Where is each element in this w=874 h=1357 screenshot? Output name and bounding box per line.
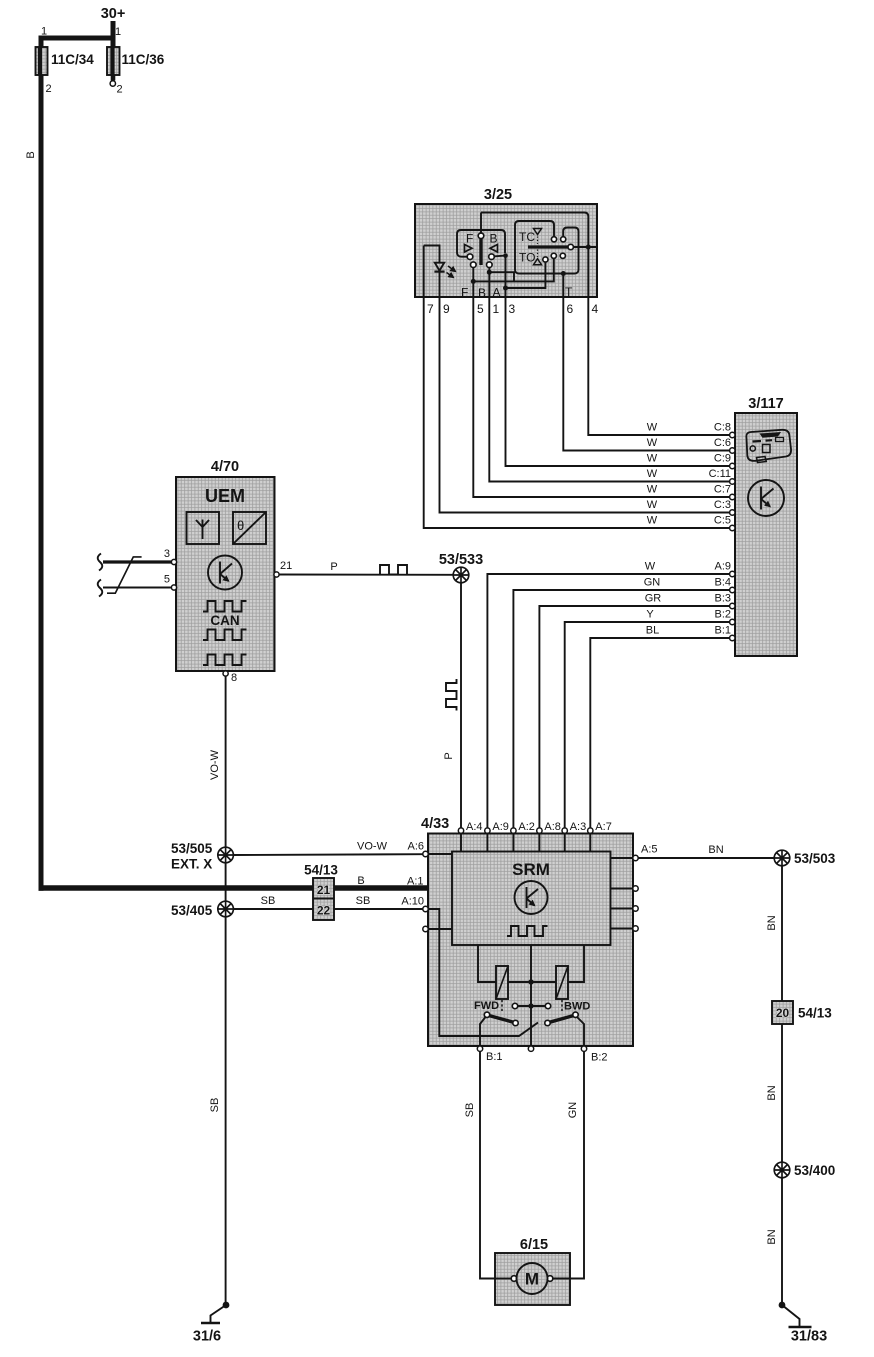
svg-text:B: B (478, 286, 486, 300)
svg-text:3/117: 3/117 (748, 396, 784, 412)
svg-text:31/83: 31/83 (791, 1329, 827, 1345)
relay link center (508, 981, 556, 983)
switch actuator bar (479, 237, 482, 265)
wire Y from 3/117 B:2 to SRM A:3 (565, 622, 730, 828)
svg-text:A:8: A:8 (544, 821, 561, 833)
svg-text:A:6: A:6 (407, 841, 424, 853)
svg-text:21: 21 (317, 883, 331, 897)
relay coil FWD (496, 966, 508, 999)
wire UEM pin 8 down (225, 676, 227, 847)
dashed actuator links (501, 1000, 503, 1013)
SRM left pin circles (423, 851, 428, 856)
wire GN from SRM B:2 to motor (553, 1051, 584, 1278)
svg-text:7: 7 (427, 302, 434, 316)
svg-text:B: B (357, 875, 364, 887)
junction contact row (528, 1003, 533, 1008)
svg-text:53/400: 53/400 (794, 1163, 835, 1178)
SRM top pin leads inside (461, 834, 590, 852)
svg-text:30+: 30+ (101, 6, 126, 22)
svg-text:GN: GN (567, 1102, 579, 1119)
wire VO-W 53/505 to SRM A:6 (233, 853, 422, 856)
break squiggle pin3 (98, 554, 103, 571)
UEM electronic unit symbol (208, 556, 242, 590)
wire BN from SRM A:5 to 53/503 (638, 857, 774, 859)
svg-text:5: 5 (164, 574, 170, 586)
svg-text:A:2: A:2 (518, 821, 535, 833)
TC-TO actuator bar (528, 245, 568, 248)
svg-text:P: P (443, 752, 455, 759)
svg-text:B: B (25, 151, 37, 158)
svg-text:P: P (330, 561, 337, 573)
wire pin9 to 3/117 C:3 (440, 272, 730, 513)
svg-text:A:9: A:9 (492, 821, 509, 833)
SRM right leads (611, 858, 634, 929)
wire SB 53/405 to SRM A:10 (233, 908, 422, 910)
UEM pin 21 circle (274, 572, 279, 577)
LED indicator in 3/25 (435, 263, 444, 271)
wire top link common to pin4 (481, 213, 588, 248)
wire BN 53/400 down to ground (781, 1178, 783, 1304)
SRM left lead A:6 (429, 853, 452, 855)
SRM inner module box (452, 852, 611, 946)
svg-text:B:2: B:2 (714, 609, 731, 621)
wire B battery feed down left side (39, 75, 44, 891)
ground junction 31/83 (779, 1302, 786, 1309)
wire pin6 to 3/117 C:6 (563, 274, 729, 451)
svg-text:A:7: A:7 (595, 821, 612, 833)
wire 30+ feed vertical (111, 21, 116, 50)
wire P vertical from 53/533 to SRM A:4 (460, 583, 462, 828)
svg-text:T: T (565, 285, 573, 299)
contact circle F (467, 254, 473, 260)
svg-text:F: F (466, 232, 473, 246)
ground junction 31/6 (223, 1302, 230, 1309)
svg-text:BN: BN (708, 844, 723, 856)
wire common up (480, 213, 482, 234)
wire pin7 internal jog (424, 246, 440, 263)
wire 53/505 down to 53/405 (225, 863, 227, 901)
TO dotted (537, 250, 539, 258)
svg-text:1: 1 (41, 26, 47, 38)
TC triangle (534, 229, 542, 235)
svg-text:W: W (645, 561, 656, 573)
svg-text:W: W (647, 499, 658, 511)
fuse 11C/36 (107, 47, 120, 75)
wire node A to TO contact (506, 262, 546, 288)
svg-text:F: F (461, 286, 468, 300)
wire GN from 3/117 B:4 to SRM A:2 (513, 590, 729, 828)
TO triangle (534, 259, 542, 265)
svg-text:21: 21 (280, 560, 292, 572)
svg-text:TO: TO (519, 251, 535, 265)
relay feed right (568, 945, 584, 982)
motor terminal right (547, 1276, 553, 1282)
svg-text:B:1: B:1 (486, 1051, 503, 1063)
svg-text:A:4: A:4 (466, 821, 483, 833)
SRM right pin circles (633, 855, 638, 860)
wire pin1 to 3/117 C:11 (489, 272, 729, 481)
svg-text:A:3: A:3 (570, 821, 587, 833)
LED arrows (448, 266, 456, 272)
arm end circles (484, 1012, 489, 1017)
svg-text:θ: θ (237, 518, 244, 533)
svg-text:VO-W: VO-W (357, 841, 388, 853)
junction B row (487, 270, 492, 275)
wire BN down right side (781, 866, 783, 1162)
UEM pin 3 wire thick (103, 560, 174, 563)
svg-text:BN: BN (766, 1085, 778, 1100)
svg-text:W: W (647, 453, 658, 465)
wire pin4 to 3/117 C:8 (588, 247, 729, 435)
svg-text:SB: SB (464, 1103, 476, 1118)
ground symbol 31/6 (211, 1305, 227, 1323)
svg-text:2: 2 (46, 83, 52, 95)
center wire from module (530, 945, 532, 1046)
svg-text:A:1: A:1 (407, 876, 424, 888)
wire W from 3/117 A:9 to SRM A:9 (487, 574, 729, 828)
SRM square wave (507, 926, 548, 936)
svg-text:11C/34: 11C/34 (51, 52, 94, 67)
svg-text:BL: BL (646, 625, 659, 637)
square wave symbol on P wire (380, 565, 407, 575)
SRM bottom pin circles (477, 1046, 482, 1051)
wire B lower to row (488, 268, 490, 273)
TC dotted (537, 237, 539, 245)
3/117 pin circles C group (730, 432, 735, 437)
svg-text:53/533: 53/533 (439, 552, 483, 568)
svg-text:6: 6 (567, 302, 574, 316)
wire pin7 to 3/117 C:5 (424, 246, 730, 529)
svg-text:W: W (647, 437, 658, 449)
svg-text:C:8: C:8 (714, 422, 731, 434)
svg-text:B:2: B:2 (591, 1052, 608, 1064)
svg-text:C:5: C:5 (714, 515, 731, 527)
svg-text:2: 2 (117, 84, 123, 96)
3/117 electronic unit symbol (748, 480, 784, 516)
TO contact circles (543, 257, 548, 262)
actuator end circle (568, 244, 573, 249)
UEM pin 5 wire (103, 587, 174, 589)
wire pin3 to 3/117 C:9 (506, 256, 730, 466)
switch TC-TO housing right path (563, 228, 578, 274)
wire BL from 3/117 B:1 to SRM A:7 (590, 638, 729, 828)
junction center relay (528, 979, 533, 984)
motor circle M (517, 1263, 548, 1294)
wire SB from SRM B:1 to motor (480, 1051, 511, 1278)
svg-text:1: 1 (493, 302, 500, 316)
contact circle F lower (471, 262, 477, 268)
wire F lower to row (472, 268, 474, 282)
svg-text:BWD: BWD (564, 1001, 590, 1013)
svg-text:9: 9 (443, 302, 450, 316)
UEM pin 8 circle (223, 671, 228, 676)
junction pin6 (561, 271, 566, 276)
relay coil BWD (556, 966, 568, 999)
wire row F to TO contact (473, 259, 554, 282)
svg-text:1: 1 (115, 26, 121, 38)
svg-text:BN: BN (766, 1229, 778, 1244)
UEM square wave 3 (203, 655, 247, 666)
svg-text:C:3: C:3 (714, 499, 731, 511)
svg-text:C:7: C:7 (714, 484, 731, 496)
svg-text:FWD: FWD (474, 1000, 499, 1012)
svg-text:31/6: 31/6 (193, 1329, 221, 1345)
switch TC-TO housing left path (515, 221, 563, 274)
junction F row (471, 279, 476, 284)
junction pin4 (586, 245, 591, 250)
svg-text:3: 3 (164, 548, 170, 560)
theta diagonal (234, 513, 266, 544)
svg-text:GN: GN (644, 577, 661, 589)
svg-text:W: W (647, 515, 658, 527)
svg-text:C:6: C:6 (714, 437, 731, 449)
switch arm FWD (487, 1015, 516, 1023)
connector 54/13 pin 20 (772, 1001, 793, 1024)
terminal circle below fuse 11C/36 (110, 81, 115, 86)
wire row B (489, 272, 514, 281)
UEM pin 5 circle (171, 585, 176, 590)
svg-text:54/13: 54/13 (304, 863, 338, 878)
motor terminal left (511, 1276, 517, 1282)
svg-text:A: A (493, 286, 501, 300)
motor wire inside left (495, 1278, 511, 1280)
svg-text:A:9: A:9 (714, 561, 731, 573)
UEM temperature sensor box (233, 512, 266, 544)
SRM electronic unit symbol (515, 881, 548, 914)
svg-text:22: 22 (317, 904, 331, 918)
svg-text:53/503: 53/503 (794, 851, 836, 866)
UEM pin 3 circle (171, 559, 176, 564)
svg-text:4/70: 4/70 (211, 459, 239, 475)
junction node A (503, 286, 508, 291)
svg-text:Y: Y (646, 609, 654, 621)
contact row circles (512, 1003, 517, 1008)
svg-text:SRM: SRM (512, 860, 550, 879)
stub to F contact (462, 256, 468, 258)
contact circle B (489, 254, 495, 260)
triangle B direction (490, 245, 498, 253)
svg-text:B:1: B:1 (714, 625, 731, 637)
svg-text:4: 4 (592, 302, 599, 316)
TC contact circles (551, 237, 556, 242)
svg-text:20: 20 (776, 1006, 790, 1020)
svg-text:C:9: C:9 (714, 453, 731, 465)
svg-text:54/13: 54/13 (798, 1006, 832, 1021)
svg-text:8: 8 (231, 672, 237, 684)
wire arm to B:1 (480, 1017, 486, 1046)
svg-text:W: W (647, 484, 658, 496)
svg-text:53/405: 53/405 (171, 903, 213, 918)
wire P from UEM 21 to 53/533 (279, 574, 454, 576)
svg-text:BN: BN (766, 915, 778, 930)
svg-text:SB: SB (261, 895, 276, 907)
svg-text:4/33: 4/33 (421, 816, 449, 832)
3/117 pin circles A-B group (730, 571, 735, 576)
svg-text:EXT. X: EXT. X (171, 857, 212, 872)
antenna symbol (196, 520, 209, 540)
svg-text:A:10: A:10 (401, 896, 424, 908)
contact row line (518, 1005, 546, 1007)
wire SB 53/405 down to ground (225, 917, 227, 1304)
ground symbol 31/83 (782, 1305, 800, 1327)
wire arm to B:2 (577, 1017, 584, 1046)
fuse 11C/34 (36, 47, 48, 75)
twisted pair slash (107, 557, 142, 593)
UEM antenna box (187, 512, 220, 544)
SRM left lead A:10 internal path to wiper (429, 909, 538, 1036)
triangle F direction (465, 245, 473, 253)
wire GR from 3/117 B:3 to SRM A:8 (539, 606, 729, 828)
junction pin3 upper (503, 253, 508, 258)
svg-text:CAN: CAN (210, 613, 239, 628)
svg-text:B:3: B:3 (714, 593, 731, 605)
wire through fuse 11C/36 (111, 48, 116, 81)
switch arm BWD (548, 1015, 576, 1023)
vertical square wave symbol on P drop (446, 679, 457, 711)
break squiggle pin5 (98, 580, 103, 597)
wire top horizontal bus to fuse 11C/34 (41, 38, 116, 50)
wire B thick horizontal to SRM A:1 (39, 885, 454, 891)
wire through fuse 11C/34 (39, 48, 44, 78)
svg-text:UEM: UEM (205, 486, 245, 506)
SRM top pin circles (458, 828, 463, 833)
switch F-B housing outline (457, 230, 505, 257)
svg-text:SB: SB (356, 895, 371, 907)
svg-text:C:11: C:11 (709, 468, 731, 480)
svg-text:TC: TC (519, 230, 535, 244)
UEM square wave 1 (203, 601, 247, 612)
svg-text:11C/36: 11C/36 (122, 52, 165, 67)
svg-text:M: M (525, 1270, 539, 1289)
svg-text:GR: GR (645, 593, 662, 605)
stub B contact to pin3 node (495, 255, 506, 258)
svg-text:W: W (647, 468, 658, 480)
UEM square wave 2 (203, 630, 247, 641)
contact circle B lower (487, 262, 493, 268)
SRM left stub lead (429, 928, 452, 930)
svg-text:3: 3 (509, 302, 516, 316)
svg-text:B:4: B:4 (714, 577, 731, 589)
wire actuator to pin4 (573, 246, 596, 248)
svg-text:6/15: 6/15 (520, 1237, 548, 1253)
svg-text:3/25: 3/25 (484, 187, 512, 203)
motor wire inside right (553, 1278, 570, 1280)
switch common contact circle (478, 233, 484, 239)
svg-text:VO-W: VO-W (209, 749, 221, 780)
relay feed left (478, 945, 496, 982)
svg-text:5: 5 (477, 302, 484, 316)
3/117 console icon (746, 430, 791, 463)
svg-text:W: W (647, 422, 658, 434)
svg-text:A:5: A:5 (641, 844, 658, 856)
svg-text:SB: SB (209, 1098, 221, 1113)
wire pin5 to 3/117 C:7 (473, 281, 729, 497)
svg-text:53/505: 53/505 (171, 841, 213, 856)
svg-text:B: B (490, 232, 498, 246)
